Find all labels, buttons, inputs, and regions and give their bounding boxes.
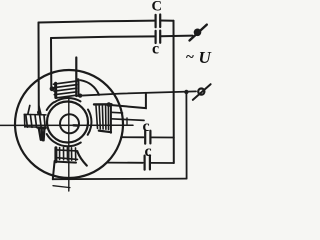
wire tick joining short lead to centerline [126,118,128,125]
stator outer circle [15,70,123,178]
bottom pole winding left bar [54,148,57,162]
shaft circle [60,114,79,133]
centerline vertical [68,98,70,192]
svg-text:c: c [152,41,159,58]
pole shoe arc left lower tip [47,134,54,142]
right pole winding top blob [107,102,112,107]
top pole winding left bar [54,83,57,97]
node junction dot middle [184,90,188,94]
capacitor c2 (bottom right) [145,155,150,169]
right pole winding right bar [110,104,112,133]
pole shoe arc bottom [55,142,81,146]
wire capacitor c2 right lead [151,162,174,164]
wire lead from bottom pole winding to bottom return [53,161,55,179]
node blob at left pole winding top [37,111,41,115]
wire vertical bus B (right side down) [185,92,187,179]
top pole shoe edge [78,80,80,96]
left pole winding funnel top [28,106,41,115]
terminal arrow top (supply clip) [190,25,207,41]
wire capacitor c2 left lead [108,162,143,164]
right pole winding hatch [96,106,109,130]
left pole winding left edge [23,115,25,128]
capacitor c (second) [156,31,161,43]
right pole winding bottom bar [99,131,111,133]
wire capacitor c1 right lead [152,136,174,138]
bottom pole winding bottom bar [57,162,77,163]
svg-text:C: C [152,0,162,15]
pole shoe arc top [55,98,81,102]
capacitor C [156,15,161,28]
wire lead from right pole stepping up to middle lead [106,93,146,108]
wire bottom return [53,178,187,181]
top pole core lead [75,58,77,97]
svg-text:~: ~ [186,50,194,66]
centerline horizontal [0,124,133,126]
bottom pole winding rails [57,150,78,160]
right pole winding top bar [94,103,112,105]
wire capacitor c1 left lead [121,136,144,138]
top pole winding stack [54,81,78,98]
svg-text:c: c [145,143,152,160]
left pole winding lower coil [38,128,46,140]
wire left vertical lead 2 [50,38,52,89]
capacitor c1 (right middle) [145,131,150,144]
terminal arrow middle (supply clip) [193,84,211,100]
rotor circle [47,102,88,143]
svg-text:U: U [199,48,212,67]
pole shoe arc left upper tip [47,102,54,110]
bottom pole winding hatch [60,148,76,161]
wire sag double line bottom left [53,186,70,188]
svg-text:c: c [143,118,150,135]
wire vertical bus A (caps common) [173,21,175,163]
right pole short branch [111,111,123,114]
left pole winding upper edges [24,114,46,127]
node junction at top pole lead [78,94,82,98]
top pole shoe arc [81,80,100,95]
wire top supply lead 1 [39,21,174,23]
top pole shoe corner [76,78,80,82]
bottom pole hook lead [77,152,87,166]
left pole winding upper hatch [26,115,45,128]
pole shoe arc right [88,110,92,135]
wire left vertical lead 1 [38,23,40,114]
node blob at top pole winding left [50,86,55,91]
wire top supply lead 2 [51,36,193,38]
wire middle lead from top pole to terminal [77,91,196,95]
shaft key tick [74,124,78,127]
wire short lead right pole lower [111,119,144,121]
